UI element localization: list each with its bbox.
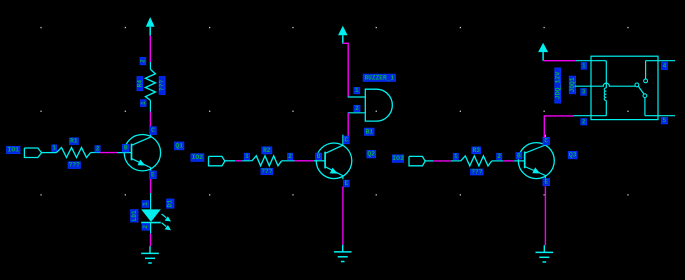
label Q1 bbox=[175, 142, 184, 150]
power symbol VCC (right) bbox=[538, 43, 548, 61]
relay JDQ1 body bbox=[591, 56, 658, 119]
ground (left) bbox=[141, 246, 159, 263]
svg-text:B: B bbox=[124, 145, 128, 152]
svg-text:4: 4 bbox=[663, 62, 667, 69]
svg-text:R2: R2 bbox=[263, 147, 271, 154]
svg-text:R3: R3 bbox=[473, 147, 481, 154]
pin number 1 of JDQ1 bbox=[581, 62, 586, 69]
svg-text:1: 1 bbox=[582, 62, 586, 69]
wire R4 to Q1 collector bbox=[149, 112, 151, 127]
svg-text:1: 1 bbox=[52, 145, 56, 152]
svg-text:D1: D1 bbox=[167, 200, 174, 208]
pin label B of Q3 bbox=[516, 152, 522, 159]
svg-text:E: E bbox=[345, 180, 349, 187]
pin number 2 of R3 bbox=[497, 153, 502, 160]
port IO2 label bbox=[191, 154, 204, 162]
transistor Q3 bbox=[514, 135, 554, 179]
svg-text:1: 1 bbox=[142, 202, 149, 206]
svg-text:IO2: IO2 bbox=[192, 154, 204, 161]
wire R2 to Q2 base bbox=[295, 160, 315, 162]
svg-text:2: 2 bbox=[142, 225, 149, 229]
svg-text:IO1: IO1 bbox=[7, 147, 19, 154]
svg-text:Q2: Q2 bbox=[367, 151, 375, 158]
relay pin 5 bbox=[645, 115, 675, 117]
pin label C of Q3 bbox=[543, 137, 549, 144]
svg-text:BUZZER_1: BUZZER_1 bbox=[364, 74, 394, 81]
resistor R3 bbox=[451, 156, 503, 166]
svg-text:5: 5 bbox=[662, 117, 666, 124]
wire buzzer pin2 to Q2 collector bbox=[347, 113, 349, 137]
label JDQ1 bbox=[569, 76, 576, 94]
svg-text:2: 2 bbox=[582, 118, 586, 125]
relay pin 2 bbox=[574, 115, 607, 117]
svg-text:1: 1 bbox=[245, 153, 249, 160]
svg-text:3: 3 bbox=[582, 88, 586, 95]
label R4 bbox=[136, 77, 143, 91]
pin number 2 of B1 bbox=[354, 105, 360, 112]
power symbol VCC (middle) bbox=[338, 26, 348, 44]
svg-text:2: 2 bbox=[497, 153, 501, 160]
resistor R2 bbox=[242, 156, 294, 166]
value ??? of R4 bbox=[159, 77, 166, 95]
value ??? of R1 bbox=[68, 162, 80, 169]
pin label E of Q3 bbox=[543, 179, 550, 186]
label LD1 of D1 bbox=[131, 210, 138, 222]
wire Q2 emitter to ground bbox=[342, 187, 344, 245]
port IO2 symbol bbox=[209, 156, 225, 165]
pin label E of Q2 bbox=[344, 180, 350, 187]
label Q2 bbox=[367, 151, 376, 158]
pin number 2 of R2 bbox=[288, 153, 293, 160]
wire IO1 to R1 bbox=[42, 152, 57, 154]
wire R3 to Q3 base bbox=[503, 160, 514, 162]
svg-text:IO3: IO3 bbox=[392, 155, 404, 162]
pin label B of Q2 bbox=[316, 153, 322, 160]
buzzer B1 bbox=[348, 89, 393, 121]
transistor Q1 bbox=[118, 127, 161, 171]
svg-text:2: 2 bbox=[355, 105, 359, 112]
pin number 1 of R3 bbox=[453, 153, 458, 160]
svg-text:R1: R1 bbox=[70, 138, 78, 145]
svg-text:Q3: Q3 bbox=[569, 152, 577, 159]
svg-text:B1: B1 bbox=[365, 128, 373, 135]
value ??? of R2 bbox=[261, 168, 273, 175]
label R1 bbox=[70, 138, 79, 145]
label D1 bbox=[167, 199, 174, 208]
wire Q1 emitter to D1 bbox=[150, 179, 152, 193]
ground (right) bbox=[536, 245, 554, 262]
pin number 5 of JDQ1 bbox=[661, 117, 667, 124]
svg-text:1: 1 bbox=[355, 87, 359, 94]
relay pin 1 bbox=[576, 60, 607, 62]
pin label E of Q1 bbox=[150, 171, 157, 179]
svg-text:E: E bbox=[544, 179, 548, 186]
wire Q3 emitter to ground bbox=[544, 186, 546, 245]
pin number 1 of R4 bbox=[140, 100, 147, 107]
value ??? of R3 bbox=[471, 169, 483, 176]
pin label B of Q1 bbox=[123, 145, 129, 152]
pin label C of Q2 bbox=[344, 136, 349, 144]
power symbol VCC (left) bbox=[146, 17, 155, 36]
wire VCC to R4 pin2 bbox=[149, 36, 151, 63]
svg-text:???: ??? bbox=[69, 162, 80, 169]
pin number 1 of R2 bbox=[244, 153, 249, 160]
wire relay pin2 to Q3 collector bbox=[544, 116, 573, 138]
transistor Q2 bbox=[314, 135, 352, 179]
svg-text:???: ??? bbox=[471, 169, 482, 176]
pin number 4 of JDQ1 bbox=[662, 62, 668, 69]
label R3 bbox=[472, 147, 481, 154]
pin number 2 of JDQ1 bbox=[581, 118, 587, 125]
pin number 1 of R1 bbox=[52, 145, 57, 152]
pin number 1 of B1 bbox=[354, 87, 360, 94]
relay switch contact bbox=[635, 61, 647, 116]
svg-text:Q1: Q1 bbox=[175, 142, 183, 149]
wire D1 to ground bbox=[150, 234, 152, 247]
label Q3 bbox=[568, 151, 577, 158]
pin number 2 of R1 bbox=[95, 145, 100, 152]
label B1 bbox=[365, 128, 374, 135]
svg-text:LD1: LD1 bbox=[131, 210, 138, 221]
pin number 2 of R4 bbox=[139, 58, 146, 65]
pin number 1 of D1 bbox=[142, 201, 149, 208]
wire IO2 to net bbox=[225, 160, 235, 162]
resistor R4 bbox=[145, 62, 155, 112]
LED D1 bbox=[141, 193, 171, 234]
wire VCC to relay pin1 bbox=[543, 60, 575, 62]
pin label C of Q1 bbox=[150, 127, 156, 135]
svg-text:C: C bbox=[151, 127, 155, 134]
svg-text:B: B bbox=[517, 152, 521, 159]
svg-text:1: 1 bbox=[454, 153, 458, 160]
wire IO3 to net bbox=[425, 160, 433, 162]
resistor R1 bbox=[57, 148, 101, 158]
port IO1 label bbox=[7, 146, 20, 153]
svg-text:B: B bbox=[317, 153, 321, 160]
svg-text:???: ??? bbox=[159, 80, 166, 91]
port IO3 symbol bbox=[409, 156, 425, 165]
svg-text:???: ??? bbox=[261, 168, 272, 175]
port IO3 label bbox=[392, 155, 404, 162]
label JDQ_12V of JDQ1 bbox=[554, 68, 561, 103]
svg-text:C: C bbox=[345, 136, 349, 143]
label BUZZER_1 bbox=[363, 74, 395, 81]
label R2 bbox=[262, 147, 272, 154]
pin number 3 of JDQ1 bbox=[581, 88, 586, 95]
relay pin 4 bbox=[646, 60, 676, 62]
svg-text:JDQ1: JDQ1 bbox=[569, 77, 576, 92]
relay pin 3 with wire hop bbox=[575, 83, 636, 86]
ground (middle) bbox=[334, 245, 352, 262]
port IO1 symbol bbox=[24, 148, 41, 158]
svg-text:2: 2 bbox=[288, 153, 292, 160]
svg-text:C: C bbox=[544, 138, 548, 145]
relay coil bbox=[604, 61, 606, 116]
svg-text:2: 2 bbox=[139, 59, 146, 63]
wire to R2 pin1 bbox=[235, 160, 242, 162]
svg-text:E: E bbox=[151, 171, 155, 178]
svg-text:1: 1 bbox=[140, 101, 147, 105]
wire to R3 pin1 bbox=[433, 160, 450, 162]
wire VCC to buzzer pin1 bbox=[343, 43, 348, 97]
svg-text:JDQ_12V: JDQ_12V bbox=[554, 72, 561, 100]
wire R1 to Q1 base bbox=[100, 152, 118, 154]
svg-text:2: 2 bbox=[96, 145, 100, 152]
svg-text:R4: R4 bbox=[136, 80, 143, 88]
pin number 2 of D1 bbox=[142, 224, 149, 231]
